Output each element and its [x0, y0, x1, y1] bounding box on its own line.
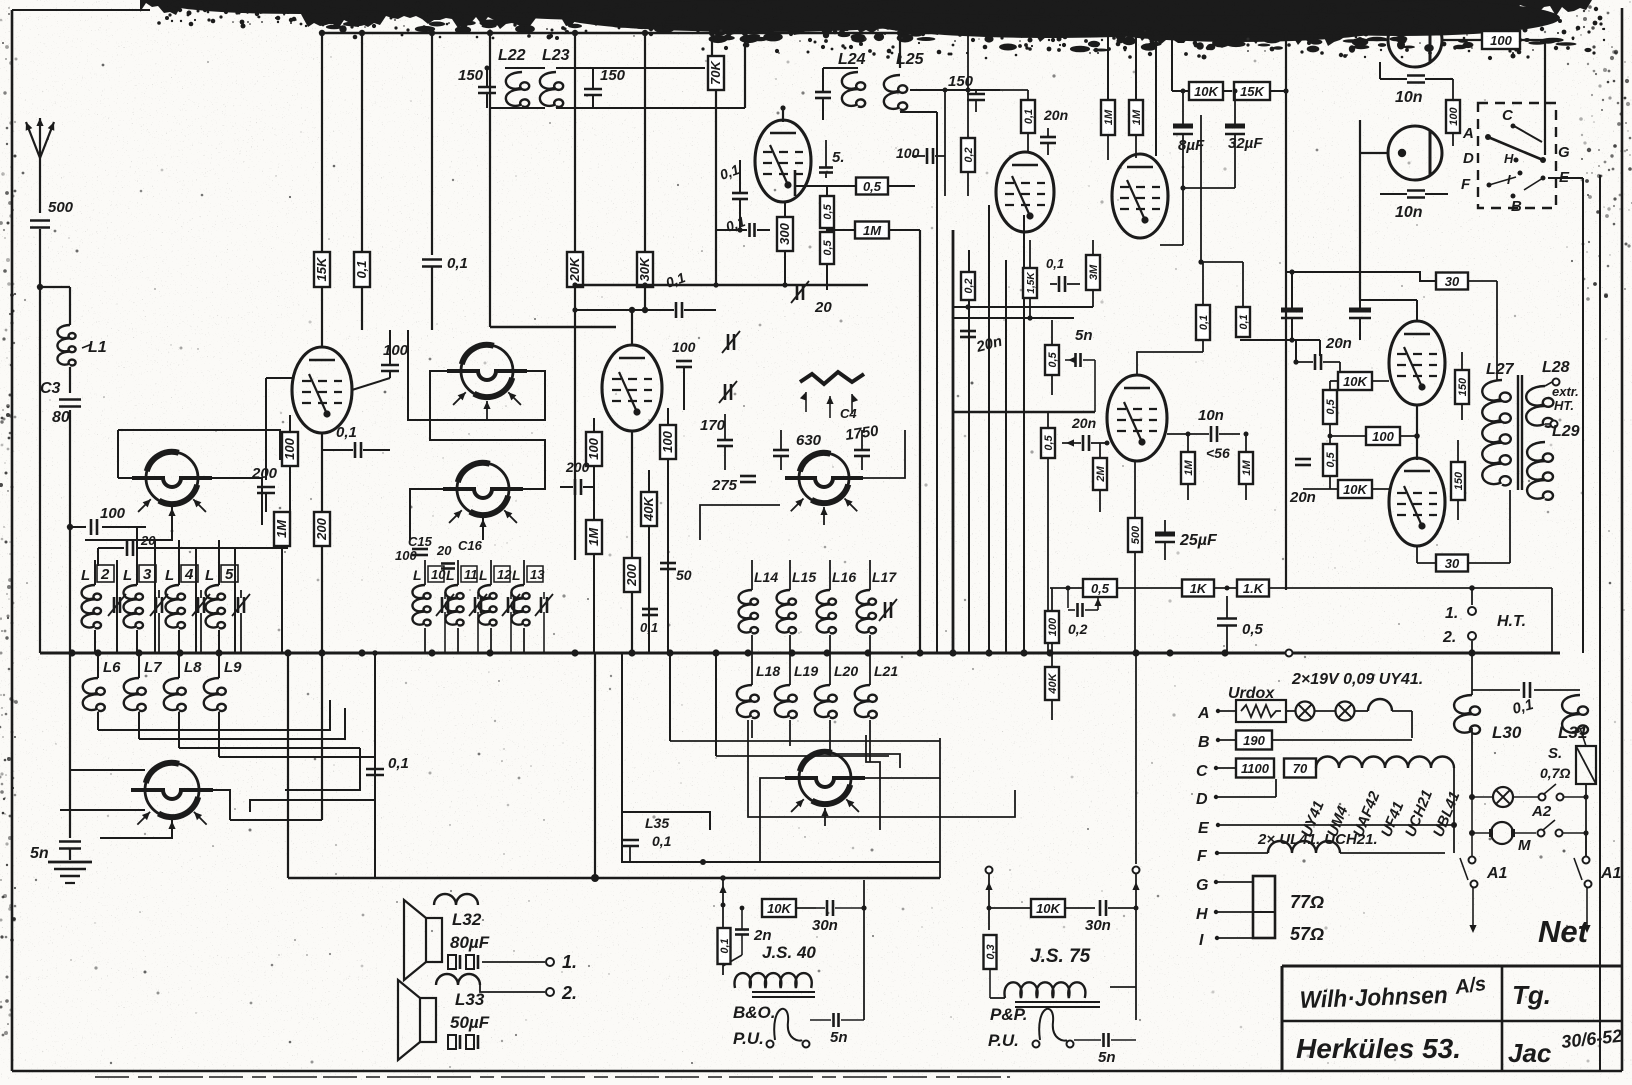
coil L18: [737, 653, 781, 738]
tube V2 oscillator: [131, 763, 213, 839]
resistor 0,5 f: [1323, 436, 1337, 489]
wire switch to border: [1448, 40, 1583, 178]
capacitor 2n: [723, 906, 772, 966]
wire V6 top: [629, 307, 635, 345]
speaker L33: [398, 980, 436, 1060]
capacitor 30n a: [812, 880, 867, 1020]
resistor 15K b: [1234, 33, 1289, 590]
tube V12 rect1: [1357, 13, 1442, 67]
title Herkules 53: [1296, 1033, 1461, 1064]
label JS75: [1030, 946, 1091, 967]
capacitor 150 b: [592, 89, 595, 95]
capacitor 0,2 b: [1068, 596, 1120, 637]
pickup coil B&O: [767, 1009, 810, 1048]
capacitor 20n d: [1293, 335, 1351, 373]
tube V14 AF: [1107, 375, 1167, 461]
capacitor 500: [30, 199, 74, 287]
resistor 100 d: [586, 418, 602, 520]
label 5: [819, 140, 845, 178]
tube V11 osc: [1112, 154, 1168, 238]
ground: [48, 862, 92, 883]
wire V2 box: [60, 770, 230, 838]
wire V9 box: [595, 653, 940, 878]
capacitor 32uF: [1180, 89, 1263, 191]
coil L15: [777, 560, 817, 653]
capacitor 25uF: [1155, 520, 1218, 653]
antenna: [26, 118, 55, 213]
wire out top: [1240, 272, 1436, 356]
switch A2: [1531, 784, 1589, 820]
resistor 1M c: [827, 222, 920, 654]
capacitor 200 c: [560, 459, 594, 495]
resistor 3M: [1086, 240, 1100, 307]
resistor 100 j: [1045, 588, 1059, 653]
resistor 200 b: [314, 433, 330, 653]
pin D: [1196, 779, 1276, 808]
pin G: [1196, 877, 1253, 894]
resistor 30K: [637, 33, 653, 310]
wire L18-L21 routing: [670, 653, 1015, 830]
resistor 15K: [314, 33, 330, 347]
coil L21: [855, 653, 899, 762]
title Tg: [1512, 980, 1551, 1010]
switch S1 dashed box: [1461, 103, 1570, 215]
capacitor 0,1 c: [322, 371, 390, 458]
tube V7 det: [755, 120, 811, 202]
resistor 1M a: [274, 512, 290, 653]
capacitor 10n d: [1167, 407, 1240, 442]
capacitor 0,5 i: [1217, 586, 1264, 654]
capacitor 0,1 m: [366, 650, 409, 878]
capacitor 30n b: [1085, 900, 1139, 934]
wire V8 links: [700, 430, 905, 540]
resistor 1M g: [1239, 432, 1253, 501]
resistor 0,5 v1: [820, 186, 834, 228]
tube V13 rect2: [1360, 120, 1442, 300]
title Wilh Johnsen: [1299, 973, 1487, 1014]
trimmer L17: [879, 599, 897, 621]
coil L29: [1527, 423, 1580, 520]
resistor 1K: [1182, 580, 1236, 597]
capacitor 20n c: [1062, 415, 1110, 451]
pin H: [1196, 906, 1253, 923]
coil L28 extr HT: [1526, 359, 1579, 428]
capacitor elec a: [1281, 269, 1303, 342]
label Net: [1538, 914, 1590, 949]
wire lower bus: [288, 874, 940, 882]
resistor 0,3: [984, 935, 998, 998]
coil L2 with trimmer: [81, 560, 126, 653]
wire V7 top: [745, 33, 786, 122]
coil L25: [884, 33, 937, 112]
coil heater UY41: [1368, 699, 1412, 738]
coil L22: [490, 33, 545, 108]
resistor 0,1 col: [354, 33, 370, 330]
label Urdox: [1228, 685, 1275, 702]
wire mixer top: [952, 304, 1095, 412]
wire af couple: [1167, 418, 1240, 434]
capacitor 0,1 k: [1472, 682, 1580, 718]
resistor 10K e: [987, 899, 1096, 917]
coil L5 with trimmer: [205, 560, 250, 653]
wire osc verticals: [230, 653, 322, 878]
resistor 70K: [708, 33, 724, 285]
resistor 0,1 i: [1137, 262, 1210, 375]
switch A1 right: [1574, 833, 1622, 933]
wire L25 right: [910, 88, 1000, 151]
capacitor 100 b: [322, 330, 409, 433]
terminal js40: [719, 878, 726, 975]
resistor 500: [1128, 461, 1142, 653]
capacitor 170: [700, 414, 733, 470]
resistor 100 i: [1328, 427, 1420, 445]
resistor 1.K: [1237, 580, 1552, 597]
resistor 0,5 d: [1041, 412, 1055, 653]
wire ht right: [1552, 588, 1560, 653]
lamp pilot 1: [1296, 702, 1336, 721]
capacitor C15 100: [395, 534, 433, 563]
coil L30: [1454, 695, 1522, 795]
capacitor 100 g: [896, 90, 945, 196]
label S 07: [1540, 745, 1570, 781]
capacitor elec L32: [434, 955, 545, 969]
coil L16: [817, 560, 857, 653]
coil L26: [1292, 1, 1356, 38]
capacitor 100 f: [672, 310, 696, 410]
coil L9: [204, 653, 242, 757]
resistor 300: [777, 202, 793, 285]
resistor 100 v: [1446, 79, 1460, 146]
resistor 100 h: [1442, 31, 1545, 155]
pin A urdox: [1197, 700, 1295, 722]
coil L32: [434, 880, 482, 962]
resistor 0,1 l: [718, 928, 732, 964]
resistor 40K: [641, 470, 657, 653]
coil L3 with trimmer: [123, 560, 168, 653]
capacitor 0,1 e: [640, 609, 658, 635]
wire V1 box: [85, 430, 280, 540]
coil L4 with trimmer: [165, 560, 210, 653]
speaker L32: [404, 900, 442, 980]
resistor 30 b: [1417, 490, 1510, 572]
label JS40: [762, 943, 816, 962]
motor M: [1469, 822, 1536, 854]
tube V5: [443, 463, 523, 537]
arrow 0,5 feedback: [1068, 588, 1102, 610]
capacitor 20n e: [1289, 440, 1316, 506]
capacitor 20n b: [960, 331, 1004, 356]
coil L23: [540, 47, 745, 108]
capacitor 20 C16: [436, 538, 483, 569]
scan edge bottom: [95, 1076, 1010, 1078]
label <56: [1206, 445, 1230, 461]
coil L14: [739, 560, 779, 653]
coil L7: [124, 653, 162, 739]
resistor 0,5 v2: [820, 228, 834, 290]
capacitor 20 top: [98, 533, 288, 556]
capacitor L35 0,1: [621, 812, 672, 862]
coil L33: [436, 974, 545, 1009]
resistor 10K a: [1172, 33, 1232, 100]
wire bundle verticals: [937, 112, 1024, 653]
capacitor 5n b: [810, 1013, 864, 1046]
coil L31: [1558, 690, 1588, 746]
resistor 100 c: [282, 415, 298, 512]
capacitor 0,1 f: [718, 160, 748, 233]
wire out right: [1530, 519, 1588, 521]
resistor 0,2 a: [961, 33, 975, 196]
resistor 20K: [567, 33, 583, 560]
wire y285: [572, 282, 868, 287]
terminal 1: [546, 952, 577, 972]
pin B: [1198, 731, 1412, 752]
resistor 0,5 c: [1045, 320, 1059, 395]
label 2x19V: [1291, 671, 1423, 688]
wire ht drop: [1471, 653, 1473, 695]
resistor 1M d: [1101, 33, 1115, 160]
capacitor C3 80: [40, 380, 81, 838]
coil L13 with trimmer: [511, 560, 553, 653]
resistor 0,5 g2: [1050, 579, 1182, 597]
resistor 0,1 b: [1000, 90, 1035, 152]
label 2xUL41: [1257, 831, 1378, 848]
label P&P PU: [988, 1005, 1028, 1050]
capacitor 5n c: [1074, 1020, 1136, 1066]
transformer JS75: [990, 982, 1136, 1007]
trimmer pair: [716, 285, 740, 403]
resistor 200 d: [624, 430, 640, 653]
capacitor 10n a: [1380, 62, 1453, 106]
coil L1: [57, 325, 106, 393]
wire antenna to L1 branch: [37, 284, 70, 653]
wire L6-L9 routing: [98, 700, 375, 812]
lamp scale: [1469, 787, 1538, 807]
resistor 1,5K: [1023, 240, 1037, 320]
transformer L27: [1482, 360, 1522, 520]
terminal HT 1: [1445, 588, 1526, 630]
coil L8: [164, 653, 202, 748]
terminal 2: [546, 983, 577, 1003]
title block frame: [1282, 966, 1622, 1071]
tube V9 osc2: [785, 752, 865, 826]
resistor 100 e: [660, 408, 676, 653]
capacitor 20n a: [1040, 107, 1068, 155]
capacitor 8uF: [1160, 89, 1205, 246]
resistor 10K b: [1330, 362, 1389, 390]
pin C: [1196, 757, 1454, 826]
wire speakers: [420, 962, 436, 1042]
resistor 40K b: [1045, 653, 1059, 760]
capacitor elec b: [1349, 260, 1371, 340]
coil L12 with trimmer: [478, 560, 520, 653]
trimmer 20: [791, 281, 832, 316]
tube V8 osc: [785, 453, 863, 525]
resistor 0,2 b: [961, 196, 975, 300]
terminal HT 2: [1442, 629, 1476, 653]
tube V10 mixer: [996, 152, 1054, 232]
label C4: [796, 406, 880, 449]
resistor 2M: [1093, 443, 1107, 512]
resistor 10K c: [1303, 480, 1389, 498]
tube V3 IF1: [292, 347, 352, 433]
resistor 10K d: [723, 899, 816, 962]
pickup coil P&P: [1033, 1009, 1097, 1048]
pin F: [1197, 825, 1454, 865]
wire v11 top: [1155, 33, 1157, 156]
wire band filter feeds: [98, 527, 235, 653]
capacitor elec L33: [448, 992, 510, 1049]
tube V1 mixer: [132, 452, 212, 526]
coil L19: [775, 653, 819, 746]
resistor 150 a: [1455, 352, 1469, 440]
capacitor 200 a: [251, 465, 278, 512]
capacitor 100 grid: [67, 505, 146, 535]
transformer JS40: [723, 973, 816, 997]
wire main ground bus: [40, 649, 1560, 656]
labels heater tube names: [1298, 788, 1464, 840]
capacitor 50: [660, 556, 692, 583]
capacitor 150 a: [458, 66, 496, 109]
tube V6 IF2: [602, 345, 662, 431]
pin I: [1199, 932, 1253, 949]
resistor 150 b: [1451, 440, 1465, 520]
terminal js75 b: [1132, 653, 1139, 1020]
coil L6: [83, 653, 121, 730]
capacitor 0,1 g: [716, 213, 770, 237]
capacitor 150 c: [584, 67, 626, 108]
coil L11 with trimmer: [445, 560, 487, 653]
wire top bus: [319, 30, 1360, 36]
pin E: [1198, 820, 1457, 837]
capacitor 1750: [854, 430, 870, 470]
fuse: [1576, 746, 1596, 860]
tube V4 IF amp: [447, 345, 527, 419]
tuning indicator: [800, 372, 864, 418]
coil L24: [815, 51, 866, 120]
coil L17: [857, 560, 898, 653]
wire right col: [1582, 178, 1584, 653]
resistor 0,5 e: [1323, 381, 1337, 436]
capacitor 0,1 a: [422, 33, 468, 330]
switch A2 b: [1538, 820, 1589, 837]
capacitor 5n: [30, 842, 81, 863]
resistor 77 57 block: [1253, 876, 1324, 944]
tube V15 out1: [1360, 300, 1445, 405]
title Jac date: [1508, 1026, 1623, 1068]
coil L10 with trimmer: [412, 560, 454, 653]
label B&O PU: [733, 1003, 776, 1048]
resistor 30 a: [1436, 273, 1497, 381]
capacitor 0,1 d: [572, 269, 716, 318]
resistor 1M f: [1181, 432, 1195, 501]
label 50uF: [450, 1013, 490, 1032]
lamp pilot 2: [1336, 702, 1369, 721]
capacitor 275: [711, 460, 756, 494]
capacitor 10n b: [1380, 153, 1448, 221]
terminal js75 a: [985, 867, 992, 931]
capacitor 150 d: [948, 73, 985, 112]
resistor 0,1 j: [1198, 115, 1250, 352]
wire V4 V5 box: [408, 33, 616, 540]
resistor 1M b: [586, 520, 602, 653]
capacitor 0,1 h: [1046, 256, 1080, 292]
capacitor 630: [773, 430, 789, 470]
switch A1 left: [1460, 797, 1508, 933]
resistor 1M e: [1129, 33, 1143, 158]
scan noise band and speckles: [140, 0, 1592, 46]
wire V3 grid: [266, 378, 292, 480]
capacitor 5n a: [1065, 327, 1095, 412]
label 80uF: [450, 933, 490, 952]
tube V16 out2: [1389, 405, 1445, 546]
coil L20: [815, 653, 859, 754]
resistor 0,5 h: [795, 170, 915, 196]
